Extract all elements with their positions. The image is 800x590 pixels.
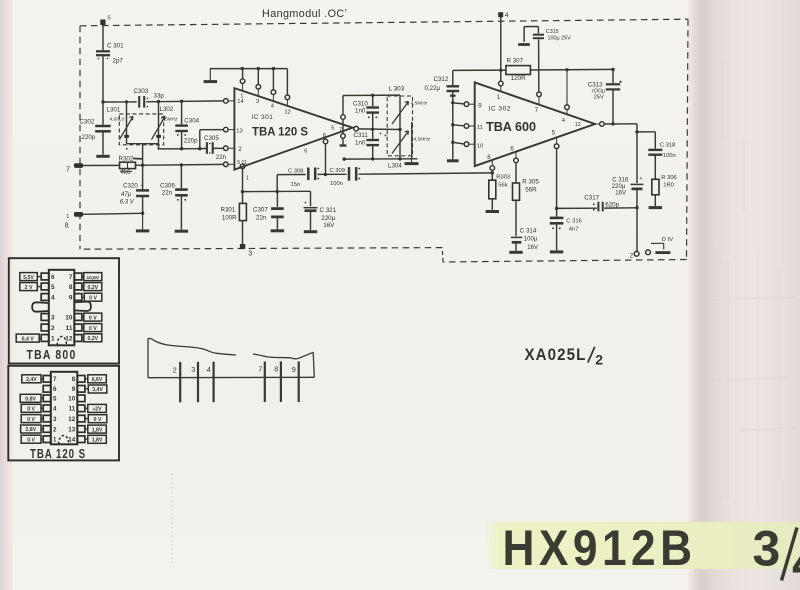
pin 1 <box>497 81 503 101</box>
capacitor C304 220p <box>175 101 199 148</box>
pin 8 <box>487 155 494 180</box>
svg-text:C 314: C 314 <box>520 228 537 235</box>
wire (node to C305) <box>159 144 202 151</box>
svg-text:3: 3 <box>191 365 195 374</box>
svg-text:8: 8 <box>69 284 73 291</box>
pin 2 <box>224 146 243 153</box>
svg-text:C305: C305 <box>204 135 219 142</box>
svg-text:7: 7 <box>53 376 57 383</box>
svg-text:5: 5 <box>552 130 556 136</box>
resistor R301 100R <box>221 203 247 244</box>
svg-text:10: 10 <box>477 143 483 149</box>
pin 12 output (apex) <box>595 122 604 127</box>
svg-text:6,3 V: 6,3 V <box>120 199 135 205</box>
svg-text:R 305: R 305 <box>522 178 539 185</box>
svg-text:14: 14 <box>237 99 244 105</box>
resistor R302 4k6 <box>119 155 144 176</box>
wire (V+ rail) <box>453 68 615 72</box>
IC pinout table TBA 800 <box>9 258 119 363</box>
connector strip outline <box>148 338 314 377</box>
resistor R305 56R <box>513 178 540 236</box>
svg-text:47µ: 47µ <box>121 192 132 198</box>
svg-text:C303: C303 <box>134 88 149 95</box>
svg-text:4: 4 <box>562 118 566 124</box>
svg-text:C 318: C 318 <box>660 142 675 148</box>
capacitor C316 220u 16V <box>612 132 644 208</box>
svg-text:R301: R301 <box>221 206 236 213</box>
inductor L302 <box>152 102 179 140</box>
capacitor C303 33p <box>134 88 165 107</box>
connector pin 7 <box>258 362 265 403</box>
svg-text:100µ: 100µ <box>524 236 538 242</box>
svg-text:6: 6 <box>304 148 307 154</box>
wire <box>453 142 464 144</box>
svg-text:D IV: D IV <box>662 237 673 243</box>
pin 9 <box>464 102 482 109</box>
svg-text:1n0: 1n0 <box>355 108 366 115</box>
node (test point) <box>340 96 347 146</box>
svg-text:4,5MHz: 4,5MHz <box>411 101 428 107</box>
svg-text:9: 9 <box>478 102 482 109</box>
wire <box>636 208 638 252</box>
svg-text:3: 3 <box>248 250 252 257</box>
capacitor C316 4n7 (pin5 decoupling) <box>550 208 582 249</box>
svg-text:C 316: C 316 <box>612 177 629 183</box>
svg-text:7: 7 <box>258 365 262 374</box>
fold mark (faint dotted) <box>171 474 173 566</box>
op-amp IC302 TBA 600 (triangle) <box>475 82 595 166</box>
node <box>141 212 144 215</box>
wire <box>453 125 464 126</box>
svg-text:8: 8 <box>65 223 69 230</box>
capacitor C320 47u <box>120 165 149 213</box>
svg-text:16V: 16V <box>527 245 538 251</box>
svg-text:100n: 100n <box>330 181 343 187</box>
wire <box>358 128 401 132</box>
pin 5/7 (apex) <box>331 125 342 133</box>
wire <box>243 190 311 193</box>
svg-text:C312: C312 <box>434 76 449 83</box>
capacitor C309 100n <box>330 167 493 187</box>
pin 4 <box>271 67 276 110</box>
svg-text:TBA 800: TBA 800 <box>27 348 77 362</box>
svg-text:100µ 25V: 100µ 25V <box>548 35 572 41</box>
pin 10 <box>464 142 483 150</box>
svg-text:11: 11 <box>477 125 483 131</box>
svg-text:2: 2 <box>595 352 603 368</box>
svg-text:3: 3 <box>256 99 259 105</box>
node <box>241 190 244 193</box>
pin 14 <box>224 99 245 106</box>
svg-text:22n: 22n <box>216 154 227 161</box>
svg-text:4,5MHz: 4,5MHz <box>414 137 431 143</box>
svg-text:220µ: 220µ <box>612 184 626 190</box>
pin 2 (bottom) <box>630 251 639 259</box>
wire (top link) <box>343 94 400 97</box>
inductor L304 <box>388 122 431 169</box>
pin 13 <box>224 127 243 134</box>
svg-text:4: 4 <box>51 295 55 302</box>
node <box>324 173 327 176</box>
pin 8 <box>318 133 328 173</box>
wire <box>637 132 655 149</box>
ground <box>447 158 459 161</box>
svg-text:10: 10 <box>68 396 75 403</box>
pin 7 (input) <box>66 163 83 173</box>
svg-text:L301: L301 <box>107 107 121 114</box>
svg-text:C 316: C 316 <box>566 218 581 224</box>
svg-text:10,6V: 10,6V <box>87 275 100 281</box>
svg-text:R303: R303 <box>496 174 510 180</box>
svg-text:4: 4 <box>505 12 509 19</box>
node <box>491 171 494 174</box>
pin 6 <box>304 148 307 154</box>
ground <box>96 154 109 157</box>
svg-text:7: 7 <box>66 167 70 174</box>
svg-text:R302: R302 <box>119 155 134 162</box>
svg-text:C 301: C 301 <box>107 43 124 50</box>
capacitor C321 220u <box>304 191 337 229</box>
ground <box>175 228 188 231</box>
svg-text:R 307: R 307 <box>507 57 524 64</box>
connector pin 3 <box>191 362 198 402</box>
capacitor C302 220p <box>80 102 111 154</box>
svg-text:1: 1 <box>240 94 243 100</box>
transformer L301/L302 (dashed box) <box>119 114 163 145</box>
capacitor C307 22n <box>253 192 284 229</box>
capacitor C313 100u 25V <box>588 70 622 124</box>
svg-text:L304: L304 <box>388 162 402 169</box>
svg-text:6: 6 <box>53 386 57 393</box>
wire <box>136 163 224 167</box>
wire (transformer tap) <box>126 137 159 166</box>
pin 5 <box>552 130 559 208</box>
svg-text:5,5V: 5,5V <box>23 275 34 281</box>
svg-text:C320: C320 <box>123 183 138 190</box>
svg-text:5: 5 <box>51 284 55 291</box>
svg-text:7: 7 <box>535 108 539 114</box>
svg-text:2: 2 <box>238 146 242 153</box>
svg-text:+: + <box>141 183 144 189</box>
pin 3 <box>256 67 261 105</box>
pin 1 <box>240 67 245 100</box>
svg-text:0,2V: 0,2V <box>87 336 98 342</box>
svg-text:10: 10 <box>65 315 73 322</box>
svg-text:7: 7 <box>69 274 73 281</box>
svg-text:16V: 16V <box>615 190 626 196</box>
svg-text:1n0: 1n0 <box>355 139 366 146</box>
ground <box>405 159 419 164</box>
capacitor C311 1n0 <box>354 129 387 159</box>
svg-text:4: 4 <box>53 406 57 413</box>
wire <box>604 124 639 134</box>
pin 12 <box>575 122 581 128</box>
svg-text:220p: 220p <box>184 137 198 144</box>
svg-text:9: 9 <box>292 365 296 374</box>
wire (input line to pin 14) <box>103 100 224 104</box>
svg-text:7: 7 <box>339 128 342 134</box>
svg-text:Hangmodul .OCʼ: Hangmodul .OCʼ <box>262 8 347 20</box>
pin 1 (bottom) <box>240 164 249 203</box>
svg-text:0 V: 0 V <box>89 315 97 321</box>
svg-text:5: 5 <box>331 125 334 131</box>
svg-text:11: 11 <box>69 406 76 413</box>
ground <box>304 228 317 232</box>
svg-text:4: 4 <box>207 365 211 374</box>
svg-text:TBA 120 S: TBA 120 S <box>30 447 86 461</box>
svg-text:3: 3 <box>53 416 57 423</box>
svg-text:2: 2 <box>173 365 177 374</box>
svg-text:C313: C313 <box>588 81 603 88</box>
svg-text:2: 2 <box>53 426 57 433</box>
svg-text:C302: C302 <box>80 119 95 126</box>
svg-text:5,5MHz: 5,5MHz <box>161 117 178 123</box>
svg-text:1: 1 <box>246 176 249 182</box>
capacitor C301 2p7 <box>96 43 124 65</box>
pin 11 <box>464 124 483 131</box>
svg-text:220p: 220p <box>82 134 96 141</box>
inductor L303 <box>389 86 428 130</box>
capacitor C308 15n <box>288 168 347 188</box>
connector pin 4 <box>207 362 214 403</box>
capacitor C318 100n <box>648 142 675 179</box>
svg-text:C310: C310 <box>353 100 368 107</box>
pin 5 (top input) <box>100 16 110 26</box>
svg-text:4n7: 4n7 <box>569 226 579 232</box>
svg-text:C311: C311 <box>354 132 369 139</box>
svg-text:8: 8 <box>72 376 76 383</box>
module boundary (dashed outline) <box>80 19 688 262</box>
svg-text:2,8V: 2,8V <box>25 427 36 433</box>
svg-text:4: 4 <box>271 104 275 110</box>
svg-text:3: 3 <box>753 521 781 577</box>
ground <box>518 43 530 46</box>
pin 4 <box>562 70 570 124</box>
svg-text:IC 301: IC 301 <box>252 114 274 121</box>
ground <box>271 227 284 231</box>
svg-text:33p: 33p <box>154 93 165 100</box>
inductor L301 <box>107 102 134 140</box>
svg-text:12: 12 <box>575 122 581 128</box>
svg-text:13: 13 <box>236 128 242 134</box>
svg-text:22n: 22n <box>256 215 267 222</box>
ground <box>136 213 149 231</box>
svg-text:XA025L: XA025L <box>525 346 587 364</box>
wire (to pin 13) <box>200 130 224 149</box>
svg-text:3,4V: 3,4V <box>92 387 103 393</box>
svg-text:14: 14 <box>68 437 75 444</box>
svg-text:L 303: L 303 <box>389 86 405 93</box>
svg-text:0 V: 0 V <box>27 417 35 423</box>
svg-text:120R: 120R <box>511 75 526 82</box>
svg-text:C 309: C 309 <box>330 168 345 174</box>
wire <box>83 164 120 166</box>
svg-text:4k6: 4k6 <box>121 169 132 176</box>
svg-text:11: 11 <box>66 325 73 332</box>
svg-text:0 V: 0 V <box>89 326 97 332</box>
svg-text:≈2V: ≈2V <box>92 407 102 413</box>
pin 12 <box>284 69 290 116</box>
node <box>499 69 502 72</box>
label XA025L/2 <box>525 346 604 367</box>
svg-text:2p7: 2p7 <box>113 58 124 65</box>
svg-text:12: 12 <box>284 109 290 115</box>
svg-text:1: 1 <box>66 214 69 220</box>
wire <box>453 103 464 104</box>
svg-text:2,4V: 2,4V <box>26 377 37 383</box>
svg-text:5 11: 5 11 <box>237 160 247 166</box>
svg-text:L302: L302 <box>160 106 174 113</box>
svg-text:IC 302: IC 302 <box>489 106 511 113</box>
svg-text:25V: 25V <box>594 94 604 100</box>
svg-text:1R0: 1R0 <box>663 182 674 188</box>
svg-text:0,8V: 0,8V <box>25 397 36 403</box>
svg-text:C 321: C 321 <box>320 207 337 214</box>
svg-text:C 308: C 308 <box>288 168 303 174</box>
svg-text:+: + <box>639 176 642 182</box>
svg-text:3: 3 <box>51 315 55 322</box>
svg-text:2: 2 <box>51 325 55 332</box>
capacitor C315 100u 25V <box>524 27 571 93</box>
diode D IV (external link) <box>646 237 674 255</box>
svg-text:0,2V: 0,2V <box>87 285 98 291</box>
wire <box>83 213 143 214</box>
node <box>635 206 638 209</box>
svg-text:0 V: 0 V <box>27 407 35 413</box>
connector pin 2 <box>173 362 180 402</box>
resistor R307 120R <box>506 57 531 82</box>
pin 3 (bottom) <box>240 244 252 257</box>
ground <box>509 249 522 253</box>
svg-text:R 306: R 306 <box>661 175 676 181</box>
wire (top bus) <box>210 68 287 70</box>
svg-text:0 V: 0 V <box>89 295 97 301</box>
resistor R306 1R0 <box>652 175 677 206</box>
page code HX912B <box>503 520 697 576</box>
capacitor C314 100u 16V <box>511 228 538 251</box>
svg-text:56k: 56k <box>498 182 507 188</box>
ground <box>486 208 499 212</box>
svg-text:9: 9 <box>72 386 76 393</box>
svg-text:+: + <box>304 201 307 207</box>
svg-text:C304: C304 <box>184 117 199 124</box>
svg-text:5: 5 <box>53 396 57 403</box>
svg-text:0 V: 0 V <box>94 417 102 423</box>
svg-text:8: 8 <box>274 365 278 374</box>
ground <box>550 248 563 252</box>
svg-text:0,22µ: 0,22µ <box>425 85 441 92</box>
svg-text:0 V: 0 V <box>27 437 35 443</box>
capacitor C306 22n <box>160 165 188 229</box>
svg-text:HX912B: HX912B <box>503 520 697 576</box>
svg-text:1: 1 <box>51 336 55 343</box>
connector pin 8 <box>274 361 281 402</box>
capacitor C310 1n0 <box>353 95 379 129</box>
svg-text:TBA 120 S: TBA 120 S <box>252 124 308 138</box>
ground <box>649 204 662 208</box>
svg-text:4,6/6,0: 4,6/6,0 <box>110 117 125 123</box>
wire <box>101 56 104 103</box>
svg-text:C315: C315 <box>546 29 559 35</box>
svg-text:15n: 15n <box>291 182 301 188</box>
svg-text:100n: 100n <box>663 153 676 159</box>
IC pinout table TBA 120 S <box>8 366 119 461</box>
wire <box>277 175 306 192</box>
svg-text:6: 6 <box>51 274 55 281</box>
pin 5/11 <box>224 160 248 167</box>
svg-text:2: 2 <box>630 253 634 259</box>
wire (bottom rail) <box>343 157 418 161</box>
svg-text:16V: 16V <box>323 222 335 229</box>
pin 6 <box>510 146 518 183</box>
svg-text:2 V: 2 V <box>25 285 33 291</box>
svg-text:220µ: 220µ <box>321 215 335 222</box>
svg-text:6,6V: 6,6V <box>92 377 103 383</box>
svg-text:13: 13 <box>68 426 75 433</box>
capacitor C305 22n <box>200 135 227 161</box>
ground <box>204 69 217 82</box>
svg-text:12: 12 <box>68 416 75 423</box>
svg-text:0,4 V: 0,4 V <box>22 336 35 342</box>
svg-text:56R: 56R <box>525 186 537 193</box>
op-amp IC301 TBA 120 S (triangle) <box>234 88 352 170</box>
capacitor C317 620p <box>555 194 637 211</box>
wire <box>102 25 104 51</box>
svg-text:C307: C307 <box>253 207 268 214</box>
svg-text:1: 1 <box>497 95 501 101</box>
svg-text:4: 4 <box>792 535 800 590</box>
svg-text:22n: 22n <box>162 189 173 196</box>
pin 7 <box>535 92 542 114</box>
svg-text:1,8V: 1,8V <box>92 427 103 433</box>
transformer L303/L304 (dashed box) <box>387 96 412 156</box>
sheet number 3/4 <box>753 521 800 590</box>
svg-text:5: 5 <box>108 16 111 22</box>
svg-text:620p: 620p <box>605 201 619 208</box>
node <box>611 122 614 125</box>
svg-text:9: 9 <box>69 295 73 302</box>
svg-text:100R: 100R <box>222 214 237 221</box>
svg-text:1: 1 <box>53 437 57 444</box>
svg-text:1,8V: 1,8V <box>92 438 103 444</box>
pin 7 (apex output) <box>353 126 359 131</box>
pin 4 (top, module input) <box>498 12 509 82</box>
title Hangmodul .OC <box>262 8 347 20</box>
resistor R303 56k <box>489 174 510 209</box>
connector pin 9 <box>292 361 299 402</box>
svg-text:C317: C317 <box>584 194 599 201</box>
capacitor C312 0,22u <box>425 70 460 158</box>
svg-text:TBA 600: TBA 600 <box>486 120 536 134</box>
pin 8 (input) <box>65 212 83 230</box>
